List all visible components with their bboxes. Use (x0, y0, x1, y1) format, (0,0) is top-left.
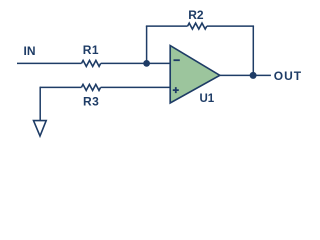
svg-text:OUT: OUT (274, 69, 302, 83)
wire: feedback vertical right down to output (252, 26, 254, 75)
svg-text:U1: U1 (200, 93, 215, 105)
svg-text:IN: IN (24, 44, 36, 58)
resistor R1 (82, 60, 101, 66)
wire: ground drop vertical (39, 87, 41, 121)
wire: R3 to non-inverting input (101, 86, 170, 88)
svg-text:R3: R3 (83, 95, 99, 109)
op-amp U1 (170, 46, 220, 103)
wire: non-inverting input segment (40, 86, 81, 88)
wire: feedback vertical left (146, 26, 148, 63)
svg-text:R2: R2 (188, 8, 204, 22)
node: junction at inverting input (143, 60, 150, 67)
ground (34, 121, 47, 136)
wire: R1 to inverting input (101, 62, 170, 64)
wire: feedback top left segment (146, 25, 188, 27)
wire: input segment from IN (17, 62, 82, 64)
resistor R3 (81, 84, 100, 90)
node: output junction (250, 72, 257, 79)
resistor R2 (188, 23, 207, 29)
wire: feedback top right segment (207, 25, 254, 27)
op-amp inverting input minus sign (174, 59, 180, 61)
svg-text:R1: R1 (83, 43, 99, 57)
wire: output segment (220, 74, 271, 76)
op-amp non-inverting input plus sign (173, 87, 179, 93)
